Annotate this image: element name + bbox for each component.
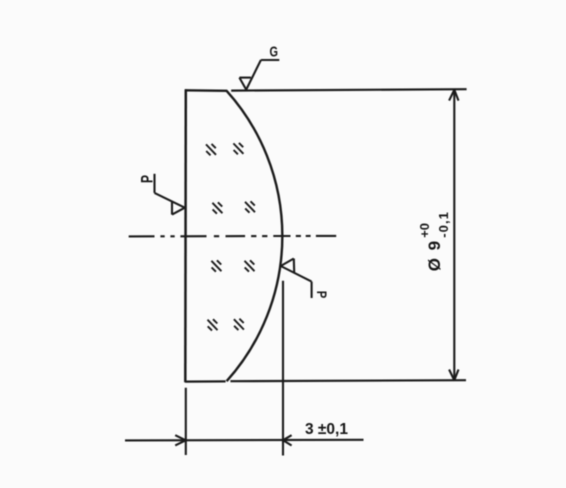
glass hatch mark row1 col2 xyxy=(233,143,243,154)
surface symbol P left: triangle on flat face with bent leader xyxy=(155,174,185,215)
thickness arrow left (pointing right at left ext line) xyxy=(175,435,186,445)
glass hatch mark row3 col2 xyxy=(245,260,255,271)
svg-text:3 ±0,1: 3 ±0,1 xyxy=(305,421,348,438)
glass hatch mark row3 col1 xyxy=(211,260,221,271)
svg-text:P: P xyxy=(137,175,156,183)
thickness extension line right xyxy=(282,281,284,456)
surface symbol P right: triangle on convex surface with bent leader xyxy=(281,259,312,299)
glass hatch mark row4 col2 xyxy=(234,319,244,330)
diameter dimension arrow bottom (open, pointing down) xyxy=(449,370,458,381)
lens flat face (left, plano side) xyxy=(184,89,187,382)
diameter dimension arrow top (open, pointing up) xyxy=(449,90,458,101)
thickness arrow right (pointing left at right ext line) xyxy=(283,435,292,445)
diameter dimension line xyxy=(453,90,455,381)
glass hatch mark row1 col1 xyxy=(206,144,216,155)
surface finish label P (left, rotated -90) xyxy=(137,175,156,183)
svg-text:G: G xyxy=(270,44,279,61)
svg-text:+0: +0 xyxy=(417,223,432,238)
glass hatch mark row2 col2 xyxy=(245,201,255,212)
svg-text:-0,1: -0,1 xyxy=(436,211,451,238)
diameter extension line bottom xyxy=(230,380,466,381)
surface finish label P (right, rotated +90) xyxy=(314,291,330,299)
optical axis centerline (dash-dot-dot) xyxy=(129,235,337,238)
svg-text:P: P xyxy=(314,291,330,299)
thickness extension line left xyxy=(185,388,187,455)
diameter dimension text Ø 9 +0/-0,1 (rotated) xyxy=(417,211,451,271)
diameter extension line top xyxy=(231,89,466,90)
surface symbol G: triangle on top edge xyxy=(239,60,279,90)
lens convex surface (arc) xyxy=(227,91,283,381)
svg-text:Ø 9: Ø 9 xyxy=(425,239,444,271)
glass hatch mark row4 col1 xyxy=(208,319,218,330)
glass hatch mark row2 col1 xyxy=(212,202,222,213)
lens top edge xyxy=(185,89,227,92)
thickness dimension line xyxy=(125,439,364,442)
lens bottom edge xyxy=(185,380,226,383)
